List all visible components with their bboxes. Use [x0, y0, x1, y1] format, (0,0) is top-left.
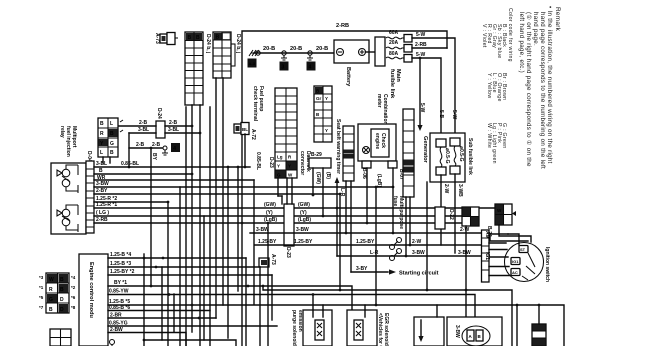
- svg-text:B: B: [60, 277, 64, 283]
- svg-text:BL: BL: [242, 127, 248, 132]
- svg-text:B: B: [100, 121, 104, 127]
- svg-text:3-BL: 3-BL: [168, 127, 179, 133]
- svg-text:2-RB: 2-RB: [415, 42, 427, 48]
- svg-text:*8: *8: [71, 305, 76, 310]
- svg-text:<Vehicles for C: <Vehicles for C: [377, 313, 383, 346]
- svg-text:ST: ST: [520, 247, 526, 252]
- svg-text:*7: *7: [39, 305, 44, 310]
- svg-text:2-B: 2-B: [139, 120, 147, 126]
- ecm wire 2-BR: [108, 313, 216, 320]
- svg-text:D: D: [60, 297, 64, 303]
- bottom right connector strip: [532, 304, 546, 346]
- svg-text:*3: *3: [39, 275, 44, 280]
- svg-text:B: B: [110, 131, 114, 137]
- starter inhibitor contacts: [390, 238, 402, 261]
- combination meter label: [376, 94, 388, 125]
- ignition switch: [505, 243, 551, 283]
- svg-text:B: B: [110, 150, 114, 156]
- wires timer drop: [345, 181, 351, 272]
- wire BY drop: [150, 147, 157, 286]
- svg-text:3-BW: 3-BW: [96, 181, 109, 187]
- fuse 20A: [386, 40, 412, 52]
- node 4 black square: [171, 143, 180, 152]
- ground chain wire: [254, 52, 338, 54]
- ecm wire 2-BW: [108, 327, 186, 346]
- svg-text:2-W: 2-W: [443, 184, 449, 193]
- node 2 black square: [248, 59, 257, 68]
- svg-text:2-BY: 2-BY: [96, 188, 108, 194]
- connector D-04 strip: [86, 151, 94, 233]
- wire 3-BW: [94, 181, 394, 188]
- wire 3-BL / 0.85-BL: [94, 148, 250, 168]
- svg-text:Y: Y: [277, 164, 280, 169]
- svg-text:0.85-BL: 0.85-BL: [255, 152, 261, 170]
- svg-text:Y: Y: [325, 128, 328, 133]
- evap solenoid label: [291, 310, 309, 346]
- wire 5-W to generator: [417, 57, 428, 164]
- svg-text:3-BW: 3-BW: [458, 250, 471, 256]
- connector A-73 lower: [259, 254, 276, 267]
- svg-text:BY: BY: [151, 153, 157, 161]
- svg-text:(Y): (Y): [266, 210, 273, 216]
- ground at node 4: [162, 146, 168, 155]
- wire LR / 3-BW: [337, 250, 482, 256]
- svg-text:5-W: 5-W: [419, 103, 425, 112]
- svg-text:0.85-YW: 0.85-YW: [109, 289, 129, 295]
- svg-text:3-BL: 3-BL: [138, 127, 149, 133]
- svg-text:1.25-B *4: 1.25-B *4: [110, 252, 131, 258]
- arrow box: [414, 305, 444, 346]
- engine control module box: [79, 254, 108, 346]
- svg-text:BY *1: BY *1: [114, 280, 127, 286]
- svg-text:3-BL: 3-BL: [96, 161, 107, 167]
- wire 3-BY starting circuit: [351, 266, 439, 277]
- connector D-24 b,j grid B: [213, 32, 241, 78]
- svg-text:2-W: 2-W: [412, 239, 421, 245]
- svg-text:purge solenoid: purge solenoid: [291, 310, 297, 346]
- svg-text:Y: Y: [325, 96, 328, 101]
- node 4 black square: [307, 62, 316, 71]
- svg-text:*4: *4: [71, 275, 76, 280]
- wire from grid A down 2: [199, 105, 201, 346]
- label multiport fuel injection relay: [59, 126, 77, 157]
- relay connector grid (letters): [98, 118, 123, 157]
- wire D-22 down: [465, 226, 468, 317]
- svg-text:A-72: A-72: [250, 129, 256, 140]
- wire from grid A down: [191, 105, 193, 332]
- wires D-23 to lower bar: [278, 178, 292, 204]
- svg-text:Engine control modu: Engine control modu: [88, 262, 94, 319]
- svg-text:IG1: IG1: [512, 259, 519, 264]
- wires from meter: [366, 168, 395, 234]
- ecm wire 1.25-BY *2: [108, 269, 272, 275]
- battery B1: [334, 40, 369, 87]
- svg-text:G: G: [110, 141, 114, 147]
- svg-text:engine: engine: [374, 133, 380, 149]
- connector D-23 lower bar: [284, 204, 294, 258]
- wire 0.85-BL drop from A-72: [244, 134, 261, 170]
- svg-text:R: R: [100, 131, 104, 137]
- svg-text:A-73: A-73: [154, 33, 160, 44]
- seat belt warning timer label: [335, 119, 341, 174]
- svg-text:3-WB: 3-WB: [457, 184, 463, 197]
- wire 2-RB / (LgB): [94, 217, 462, 224]
- svg-text:⌀0.5-G: ⌀0.5-G: [458, 146, 464, 162]
- svg-text:20A: 20A: [389, 40, 399, 46]
- ground G2: [307, 51, 313, 62]
- svg-text:2-W: 2-W: [460, 227, 469, 233]
- svg-text:*2: *2: [71, 285, 76, 290]
- svg-text:W : White: W : White: [486, 123, 492, 148]
- wire 2-B lower to ground: [129, 133, 162, 148]
- svg-text:3-BW: 3-BW: [256, 227, 269, 233]
- wire from grid B down 2: [222, 78, 224, 305]
- svg-text:*1: *1: [39, 285, 44, 290]
- connector B-24 grid: [486, 204, 516, 237]
- remark text block: [481, 6, 561, 169]
- svg-text:Y: Y: [288, 164, 291, 169]
- wires strip to switch: [489, 234, 519, 276]
- data link connector label: [299, 151, 311, 175]
- svg-text:2-B: 2-B: [169, 120, 177, 126]
- svg-text:5-W: 5-W: [451, 110, 457, 119]
- ground symbol (chassis) left: [249, 50, 260, 56]
- wire 5-W from 80A: [412, 52, 441, 140]
- node 3 black square: [280, 62, 289, 71]
- svg-text:B: B: [196, 35, 200, 41]
- wires B-24 to ignition: [490, 225, 531, 242]
- svg-text:Starting circuit: Starting circuit: [399, 271, 439, 277]
- svg-text:A-3: A-3: [249, 61, 256, 66]
- svg-text:check terminal: check terminal: [252, 86, 258, 122]
- svg-text:1.25-B *3: 1.25-B *3: [110, 261, 131, 267]
- connector D-23 grid: [268, 88, 297, 178]
- svg-text:0.85-B *6: 0.85-B *6: [109, 305, 130, 311]
- wires relay grid to relay box: [103, 157, 110, 163]
- fuse 60A: [386, 30, 412, 42]
- svg-text:(B): (B): [325, 172, 331, 179]
- svg-text:*5: *5: [39, 295, 44, 300]
- svg-text:D-24: D-24: [156, 108, 162, 119]
- wire B: [94, 168, 193, 175]
- svg-text:B: B: [188, 35, 192, 41]
- svg-text:L-R: L-R: [370, 250, 379, 256]
- svg-text:B-29: B-29: [311, 152, 322, 158]
- wire battery to fusible link: [366, 51, 376, 53]
- wire 2-RB from 20A: [412, 42, 447, 48]
- svg-text:(① on the right hand page corr: (① on the right hand page corresponds to…: [525, 12, 532, 167]
- ecm wire 1.25-B *3: [108, 261, 260, 268]
- egr solenoid box: [347, 305, 377, 346]
- svg-text:60A: 60A: [389, 30, 399, 36]
- svg-text:fusible link: fusible link: [389, 69, 395, 99]
- wire from grid B down: [215, 78, 217, 318]
- svg-text:D-23: D-23: [268, 157, 274, 168]
- svg-text:AC: AC: [512, 270, 518, 275]
- svg-text:*6: *6: [71, 295, 76, 300]
- svg-text:B: B: [99, 168, 103, 174]
- svg-text:(GW): (GW): [298, 202, 310, 208]
- svg-text:(LgB): (LgB): [264, 217, 277, 223]
- fuse 80A: [386, 51, 412, 62]
- connector D-22 grid: [462, 207, 479, 226]
- svg-text:D-24 b, j: D-24 b, j: [235, 34, 241, 54]
- svg-text:D-24 b, j: D-24 b, j: [205, 34, 211, 54]
- svg-text:meter: meter: [376, 94, 382, 108]
- connector D-24 b,j grid A: [185, 32, 211, 105]
- long vertical bus wires: [143, 107, 427, 346]
- svg-text:(LgB): (LgB): [298, 217, 311, 223]
- svg-text:V : Violet: V : Violet: [481, 24, 487, 48]
- svg-text:Generator: Generator: [422, 136, 428, 164]
- wire 1.25-BY: [255, 239, 482, 245]
- svg-text:3-BY: 3-BY: [356, 266, 368, 272]
- ecm bottom terminal icon: [110, 340, 115, 346]
- svg-text:2-B: 2-B: [152, 142, 160, 148]
- svg-text:3-BW: 3-BW: [296, 227, 309, 233]
- wire 3-BW mid: [250, 227, 482, 233]
- svg-text:1.25-R *1: 1.25-R *1: [96, 202, 117, 208]
- svg-text:(GW): (GW): [264, 202, 276, 208]
- svg-text:20-B: 20-B: [290, 46, 302, 52]
- connector A-72: [234, 123, 256, 141]
- wire 2-RB top feed: [242, 23, 447, 346]
- wires fuse strip drop: [405, 197, 412, 257]
- connector B-29 grid: [314, 86, 332, 142]
- relay box: [51, 163, 86, 234]
- ecm wire 0.85-B *6: [108, 305, 210, 311]
- svg-text:4: 4: [309, 65, 312, 71]
- svg-text:Gr: Gr: [316, 96, 322, 101]
- multi-purpose fuse strip: [392, 109, 414, 229]
- svg-text:G: G: [49, 297, 53, 303]
- svg-text:connector: connector: [299, 151, 305, 175]
- ecm wire 1.25-B *4: [108, 252, 246, 259]
- ignition switch connector strip: [482, 230, 491, 282]
- svg-text:B: B: [60, 287, 64, 293]
- svg-text:1.25-BY *2: 1.25-BY *2: [110, 269, 135, 275]
- svg-text:20-B: 20-B: [263, 46, 275, 52]
- svg-text:2-BW: 2-BW: [110, 327, 123, 333]
- svg-text:Seat belt warning timer: Seat belt warning timer: [335, 119, 341, 174]
- svg-text:2-B: 2-B: [136, 142, 144, 148]
- svg-text:(LgB): (LgB): [376, 174, 382, 187]
- wire 3-BL loop: [129, 127, 201, 134]
- labels (GW)(Y)(LgB) right of D-23 lower: [298, 202, 311, 223]
- wire 1.25-R *1 / (GW): [94, 202, 495, 208]
- svg-text:⌀0.5-G: ⌀0.5-G: [444, 148, 450, 164]
- wire WR: [94, 175, 254, 181]
- wires sub fusible drop: [441, 174, 463, 253]
- svg-text:D-22: D-22: [448, 209, 454, 220]
- svg-text:left hand page, etc.): left hand page, etc.): [518, 12, 525, 73]
- ecm lower grid: [50, 329, 71, 346]
- svg-text:hand page.: hand page.: [532, 12, 539, 46]
- svg-text:IG1: IG1: [484, 252, 490, 260]
- svg-text:L: L: [100, 150, 103, 156]
- svg-text:3-BW: 3-BW: [412, 250, 425, 256]
- wire 2-BY: [94, 188, 340, 194]
- wire lower unlabeled: [143, 339, 236, 346]
- egr solenoid label: [377, 313, 389, 346]
- connector A-73 (top): [154, 33, 178, 45]
- wire 1.25-R *2: [94, 196, 169, 203]
- svg-text:Ignition switch: Ignition switch: [544, 247, 550, 282]
- connector D-22 bar: [435, 207, 454, 229]
- svg-text:L: L: [110, 121, 113, 127]
- svg-text:1.25-BY: 1.25-BY: [294, 239, 313, 245]
- main fusible link body: [375, 37, 401, 99]
- svg-text:0.85-BL: 0.85-BL: [121, 161, 139, 167]
- svg-text:AM: AM: [484, 231, 490, 239]
- svg-text:• In the illustration, the num: • In the illustration, the numbered wiri…: [546, 6, 553, 164]
- svg-text:Lg: Lg: [277, 155, 283, 160]
- connector B-29 bar: [309, 152, 331, 168]
- svg-text:2-RB: 2-RB: [96, 217, 108, 223]
- svg-text:relay: relay: [59, 126, 65, 138]
- svg-text:3: 3: [282, 65, 285, 71]
- svg-text:Sub fusible link: Sub fusible link: [467, 138, 473, 175]
- svg-text:A-73: A-73: [270, 254, 276, 265]
- svg-text:Battery: Battery: [345, 67, 351, 87]
- svg-text:(Y): (Y): [300, 210, 307, 216]
- svg-text:G: G: [277, 173, 281, 178]
- ecm wire 1.25-B *5: [108, 299, 564, 346]
- svg-text:hand page corresponds to the n: hand page corresponds to the numbering o…: [539, 12, 546, 169]
- wire L-R drop: [335, 177, 345, 256]
- svg-text:W: W: [49, 277, 54, 283]
- svg-text:B: B: [216, 35, 220, 41]
- svg-text:5-B: 5-B: [438, 110, 444, 118]
- fuel pump check terminal label: [252, 86, 264, 122]
- svg-text:5-W: 5-W: [416, 32, 425, 38]
- svg-text:(GW): (GW): [315, 172, 321, 184]
- wire 5-W from 60A: [412, 32, 455, 139]
- svg-text:Remark: Remark: [554, 7, 561, 32]
- wire drop to pump: [516, 305, 518, 346]
- ecm pin grid (letters): [39, 273, 76, 313]
- svg-text:B-06: B-06: [361, 168, 367, 179]
- combination meter box: [358, 124, 396, 161]
- svg-text:0.85-YG: 0.85-YG: [109, 321, 128, 327]
- svg-text:( LG ): ( LG ): [96, 210, 109, 216]
- relay loop connector D-24: [156, 108, 165, 138]
- seat belt timer strip B-06: [343, 126, 367, 181]
- svg-text:20-B: 20-B: [316, 46, 328, 52]
- svg-text:2-BR: 2-BR: [110, 313, 122, 319]
- evap solenoid box: [303, 293, 332, 346]
- svg-text:2-RB: 2-RB: [336, 23, 349, 29]
- ecm wire 0.85-YW: [108, 289, 475, 318]
- wire 2-B loop top: [118, 120, 193, 127]
- fuel pump box: [447, 317, 502, 346]
- svg-text:D: D: [60, 307, 64, 313]
- svg-text:fuse: fuse: [392, 196, 398, 207]
- labels (GW)(Y)(LgB) left of D-23 lower: [264, 202, 277, 223]
- wire (LG) / (Y): [94, 210, 462, 216]
- bus wire upper: [262, 285, 512, 346]
- svg-text:R: R: [49, 287, 53, 293]
- ground G1: [281, 51, 287, 62]
- svg-text:Y : Yellow: Y : Yellow: [486, 73, 492, 98]
- sub fusible link box: [430, 133, 473, 182]
- svg-text:B: B: [49, 307, 53, 313]
- ecm wire BY *1: [108, 280, 352, 317]
- svg-text:3-BW: 3-BW: [454, 325, 460, 338]
- svg-text:D-23: D-23: [285, 247, 291, 258]
- ecm wire 0.85-YG: [108, 321, 277, 327]
- combination meter pins: [362, 161, 404, 187]
- svg-text:80A: 80A: [389, 51, 399, 57]
- wires B-29 drop: [312, 168, 331, 217]
- svg-text:1.25-BY: 1.25-BY: [356, 239, 375, 245]
